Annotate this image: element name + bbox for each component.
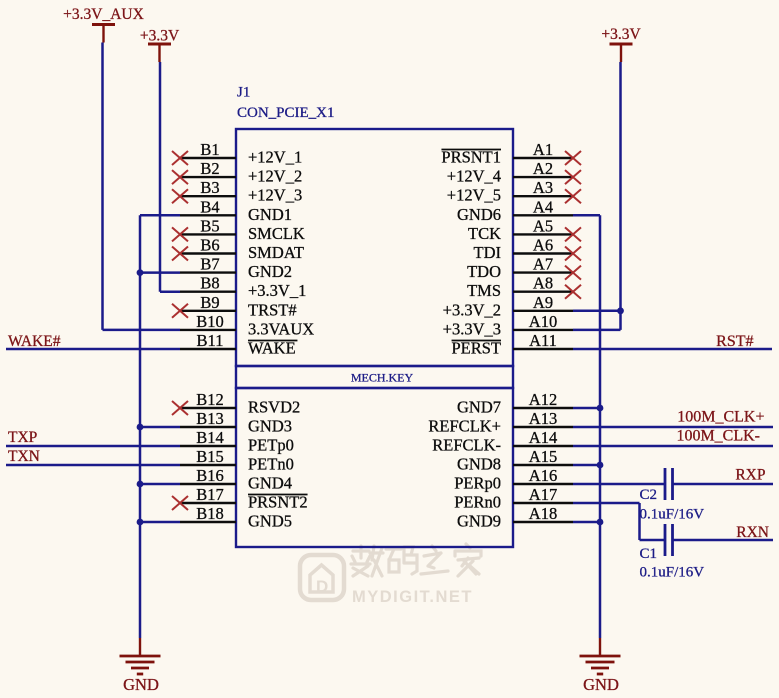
- svg-text:0.1uF/16V: 0.1uF/16V: [640, 507, 705, 523]
- svg-text:GND2: GND2: [248, 262, 292, 281]
- svg-text:B2: B2: [200, 159, 219, 178]
- svg-text:A1: A1: [533, 140, 553, 159]
- svg-text:REFCLK-: REFCLK-: [432, 436, 501, 455]
- svg-text:+3.3V_3: +3.3V_3: [443, 319, 501, 338]
- svg-text:+12V_2: +12V_2: [248, 167, 302, 186]
- svg-text:MECH.KEY: MECH.KEY: [351, 371, 414, 385]
- svg-text:SMDAT: SMDAT: [248, 243, 304, 262]
- svg-text:A11: A11: [529, 331, 557, 350]
- svg-text:GND7: GND7: [457, 398, 501, 417]
- svg-text:TDO: TDO: [467, 262, 501, 281]
- svg-text:B12: B12: [196, 390, 224, 409]
- svg-text:GND3: GND3: [248, 417, 292, 436]
- svg-text:GND: GND: [583, 675, 619, 694]
- svg-text:+3.3V_1: +3.3V_1: [248, 281, 306, 300]
- svg-text:GND1: GND1: [248, 205, 292, 224]
- svg-text:PERp0: PERp0: [454, 474, 501, 493]
- svg-text:+3.3V_AUX: +3.3V_AUX: [63, 6, 144, 23]
- svg-text:B15: B15: [196, 447, 224, 466]
- svg-text:A14: A14: [529, 428, 557, 447]
- svg-text:J1: J1: [237, 85, 250, 101]
- svg-text:B5: B5: [200, 216, 219, 235]
- svg-text:TRST#: TRST#: [248, 300, 297, 319]
- svg-text:A9: A9: [533, 293, 553, 312]
- svg-text:B14: B14: [196, 428, 224, 447]
- svg-text:GND4: GND4: [248, 474, 292, 493]
- svg-text:GND6: GND6: [457, 205, 501, 224]
- svg-text:B8: B8: [200, 274, 219, 293]
- svg-text:+3.3V_2: +3.3V_2: [443, 300, 501, 319]
- svg-text:A17: A17: [529, 485, 557, 504]
- svg-text:B3: B3: [200, 178, 219, 197]
- svg-text:PETn0: PETn0: [248, 455, 294, 474]
- svg-text:A18: A18: [529, 504, 557, 523]
- svg-text:PETp0: PETp0: [248, 436, 294, 455]
- svg-text:TCK: TCK: [468, 224, 501, 243]
- svg-text:B10: B10: [196, 312, 224, 331]
- svg-text:A10: A10: [529, 312, 557, 331]
- svg-text:C1: C1: [640, 546, 658, 562]
- svg-text:RST#: RST#: [716, 333, 753, 350]
- svg-text:REFCLK+: REFCLK+: [428, 417, 501, 436]
- svg-text:100M_CLK+: 100M_CLK+: [677, 409, 764, 426]
- svg-text:+12V_4: +12V_4: [447, 167, 501, 186]
- svg-text:TXP: TXP: [8, 429, 37, 446]
- svg-text:+12V_5: +12V_5: [447, 186, 501, 205]
- svg-text:A13: A13: [529, 409, 557, 428]
- svg-text:+3.3V: +3.3V: [601, 26, 641, 43]
- svg-text:GND5: GND5: [248, 512, 292, 531]
- svg-text:C2: C2: [640, 487, 658, 503]
- svg-text:A8: A8: [533, 274, 553, 293]
- svg-text:0.1uF/16V: 0.1uF/16V: [640, 565, 705, 581]
- svg-text:B4: B4: [200, 197, 219, 216]
- svg-text:A2: A2: [533, 159, 553, 178]
- svg-text:WAKE#: WAKE#: [8, 333, 61, 350]
- svg-text:B7: B7: [200, 255, 219, 274]
- svg-text:SMCLK: SMCLK: [248, 224, 305, 243]
- svg-text:TXN: TXN: [8, 448, 40, 465]
- svg-text:A6: A6: [533, 236, 553, 255]
- svg-text:RXN: RXN: [736, 524, 769, 541]
- svg-text:A7: A7: [533, 255, 553, 274]
- svg-text:CON_PCIE_X1: CON_PCIE_X1: [237, 105, 335, 121]
- svg-text:A15: A15: [529, 447, 557, 466]
- svg-text:B6: B6: [200, 236, 219, 255]
- svg-text:B17: B17: [196, 485, 224, 504]
- svg-text:A16: A16: [529, 466, 557, 485]
- svg-text:RXP: RXP: [735, 467, 765, 484]
- svg-text:+12V_3: +12V_3: [248, 186, 302, 205]
- svg-text:B9: B9: [200, 293, 219, 312]
- svg-text:TDI: TDI: [474, 243, 502, 262]
- svg-text:D: D: [316, 577, 328, 596]
- svg-text:A3: A3: [533, 178, 553, 197]
- svg-text:PERn0: PERn0: [454, 493, 501, 512]
- svg-text:B11: B11: [197, 331, 224, 350]
- svg-text:A4: A4: [533, 197, 553, 216]
- svg-text:A5: A5: [533, 216, 553, 235]
- svg-text:B16: B16: [196, 466, 224, 485]
- svg-text:+3.3V: +3.3V: [140, 28, 180, 45]
- svg-text:B13: B13: [196, 409, 224, 428]
- svg-text:B1: B1: [200, 140, 219, 159]
- svg-text:TMS: TMS: [467, 281, 501, 300]
- svg-text:B18: B18: [196, 504, 224, 523]
- svg-text:GND: GND: [123, 675, 159, 694]
- svg-text:GND9: GND9: [457, 512, 501, 531]
- svg-text:3.3VAUX: 3.3VAUX: [248, 319, 314, 338]
- svg-text:100M_CLK-: 100M_CLK-: [676, 428, 760, 445]
- svg-text:RSVD2: RSVD2: [248, 398, 300, 417]
- svg-text:MYDIGIT.NET: MYDIGIT.NET: [352, 588, 473, 606]
- svg-text:GND8: GND8: [457, 455, 501, 474]
- svg-text:+12V_1: +12V_1: [248, 148, 302, 167]
- svg-text:A12: A12: [529, 390, 557, 409]
